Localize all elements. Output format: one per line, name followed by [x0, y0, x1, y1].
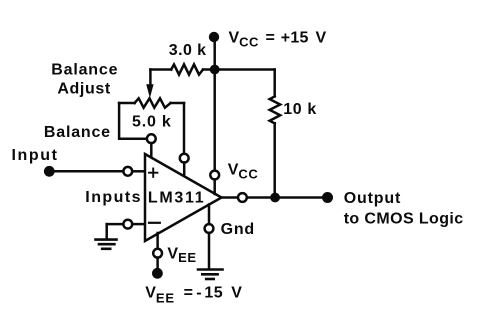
wire 10k branch lower: [273, 123, 276, 197]
minus input mark: [149, 222, 160, 224]
node VCC supply terminal: [209, 32, 219, 42]
pin balance circle on triangle top edge: [180, 154, 189, 163]
wire inverting input: [107, 223, 124, 226]
ground center symbol: [198, 270, 223, 280]
resistor R 10k: [270, 96, 281, 123]
svg-text:LM311: LM311: [148, 189, 205, 206]
wire VEE pin from triangle bottom edge: [156, 233, 159, 249]
svg-text:Inputs: Inputs: [85, 189, 142, 206]
pin noninverting input circle: [123, 167, 132, 176]
plus input mark: [149, 169, 157, 177]
svg-text:10 k: 10 k: [283, 101, 317, 118]
node output terminal: [322, 192, 333, 203]
wire pot right bracket: [183, 103, 186, 154]
pin VEE circle: [153, 249, 162, 258]
wire balance pin to triangle top: [150, 143, 153, 157]
pin VCC circle: [210, 171, 219, 180]
resistor R 3.0k: [171, 64, 203, 74]
wire output rail: [247, 196, 328, 199]
wire pot left bracket: [119, 103, 147, 139]
wire Gnd pin from triangle bottom edge: [208, 205, 211, 225]
potentiometer R 5.0k body: [119, 102, 135, 105]
wire balance pin 2 to triangle edge: [183, 163, 186, 177]
node junction output/10k: [270, 193, 280, 203]
pin balance circle (pot return): [147, 134, 156, 143]
wire VCC pin to triangle edge: [213, 179, 216, 194]
ground left symbol: [96, 240, 117, 249]
node junction on top rail: [210, 65, 220, 75]
wire VEE pin to terminal: [156, 258, 159, 269]
wire inverting input to ground: [105, 224, 108, 238]
pin Gnd circle: [205, 224, 214, 233]
wire Gnd pin to ground: [208, 233, 211, 268]
svg-text:3.0 k: 3.0 k: [169, 42, 207, 59]
op-amp U1 LM311 triangle: [145, 154, 222, 241]
wire noninverting input: [49, 170, 123, 173]
pin output circle: [238, 193, 247, 202]
wire top rail left segment: [150, 68, 171, 71]
wire top rail right segment: [203, 68, 275, 71]
node VEE supply terminal: [152, 268, 163, 279]
svg-text:Gnd: Gnd: [221, 221, 255, 238]
svg-text:Adjust: Adjust: [57, 80, 110, 97]
wire output from apex: [222, 196, 239, 199]
wire VCC vertical from supply dot to VCC pin: [213, 37, 216, 171]
wire into + input: [132, 170, 145, 173]
svg-text:Balance: Balance: [51, 61, 118, 78]
wire into - input: [132, 223, 145, 226]
svg-text:Balance: Balance: [44, 124, 111, 141]
svg-text:5.0 k: 5.0 k: [132, 114, 172, 131]
pin inverting input circle: [123, 220, 132, 229]
wire 10k branch upper: [273, 70, 276, 97]
svg-text:Input: Input: [12, 147, 59, 164]
svg-text:to CMOS Logic: to CMOS Logic: [344, 211, 464, 228]
wiper arrow of potentiometer: [146, 84, 153, 98]
wire pot feed from rail down: [149, 70, 152, 86]
svg-text:Output: Output: [344, 190, 402, 207]
node input terminal: [44, 166, 55, 177]
